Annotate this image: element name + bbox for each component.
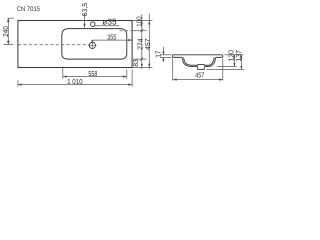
svg-text:CN 7015: CN 7015 bbox=[17, 6, 40, 13]
svg-text:137: 137 bbox=[234, 50, 243, 62]
section right extension lines bbox=[207, 55, 244, 70]
svg-text:355: 355 bbox=[107, 32, 116, 41]
svg-text:63,5: 63,5 bbox=[80, 3, 89, 17]
chain dim line 100/274/83 bbox=[141, 14, 143, 69]
dim line 558 bbox=[63, 76, 127, 78]
dim 457 (section width) bbox=[173, 59, 223, 81]
drain circle bbox=[89, 42, 95, 48]
svg-text:1 010: 1 010 bbox=[67, 77, 83, 86]
faucet hole circle bbox=[91, 22, 96, 27]
right side extension lines bbox=[132, 14, 152, 69]
section view slab bbox=[172, 55, 222, 70]
558 arrowheads bbox=[63, 75, 127, 77]
chain arrowheads bbox=[141, 21, 143, 68]
457 arrowheads bbox=[148, 21, 150, 68]
label diameter 35 with leader bbox=[95, 24, 119, 27]
dim 63,5 (top, down-pointing) bbox=[82, 14, 88, 28]
svg-text:457: 457 bbox=[143, 39, 152, 51]
bowl outer bbox=[182, 57, 215, 66]
bowl inner bbox=[184, 57, 215, 65]
svg-text:83: 83 bbox=[131, 59, 140, 66]
dim line 137 bbox=[240, 55, 242, 70]
drain cross ticks bbox=[88, 41, 96, 49]
bottom extension lines bbox=[18, 67, 132, 87]
dim line 120 bbox=[233, 55, 235, 67]
svg-text:ø35: ø35 bbox=[102, 16, 117, 26]
dim 355 (drain to right edge) bbox=[92, 40, 132, 43]
svg-text:100: 100 bbox=[135, 16, 144, 27]
svg-text:17: 17 bbox=[154, 51, 163, 58]
hidden edge dashed line left (240 depth) bbox=[18, 44, 89, 46]
svg-text:457: 457 bbox=[195, 70, 204, 79]
overall 457 dim line bbox=[148, 14, 150, 69]
svg-text:240: 240 bbox=[1, 26, 10, 37]
svg-text:558: 558 bbox=[88, 69, 97, 78]
dim line 1 010 bbox=[18, 84, 132, 86]
basin rim (plan view rounded rect) bbox=[62, 29, 127, 59]
dim 17 (slab thickness) bbox=[160, 47, 171, 62]
drain outlet bbox=[198, 66, 205, 69]
hidden edge dashed line right (100 depth) bbox=[120, 30, 133, 32]
1010 arrowheads bbox=[18, 83, 132, 85]
countertop outline (plan view) bbox=[18, 21, 132, 68]
dim 240 (left) bbox=[4, 18, 14, 44]
